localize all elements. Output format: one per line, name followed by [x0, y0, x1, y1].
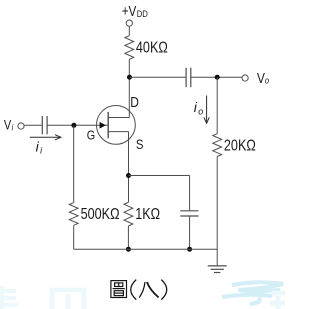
watermark pale glyph bottom-left 1: [0, 286, 18, 309]
wire C2 to Vo: [191, 76, 242, 78]
node gate junction: [71, 123, 76, 128]
node output junction: [215, 75, 220, 80]
wire R3 to bottom: [73, 225, 75, 249]
node C3 bottom junction: [187, 247, 192, 252]
caption parenthesis right: [161, 280, 166, 300]
wire source lead down: [128, 132, 130, 203]
transistor Q1 source bar: [108, 131, 128, 133]
current io arrow: [204, 96, 209, 124]
svg-text:D: D: [130, 94, 139, 110]
transistor Q1 channel bar: [107, 112, 109, 138]
svg-text:o: o: [198, 106, 203, 116]
label +VDD: [122, 3, 148, 19]
wire down to C3: [189, 176, 191, 211]
watermark pale glyph bottom-left 2: [50, 288, 86, 309]
wire R4 to bottom: [127, 226, 129, 249]
terminal Vi: [18, 123, 24, 129]
ground: [208, 266, 227, 273]
watermark pale glyph bottom-right edge: [270, 293, 285, 309]
label Vo: [257, 70, 269, 86]
svg-text:500KΩ: 500KΩ: [81, 205, 120, 222]
node source junction: [126, 173, 131, 178]
wire R1 to drain: [128, 59, 130, 117]
wire C1 to gate node: [47, 124, 107, 126]
wire node to R2: [216, 77, 218, 134]
transistor Q1 drain bar: [108, 117, 129, 119]
capacitor C3 bypass: [180, 211, 198, 216]
wire R2 to ground: [216, 157, 218, 266]
resistor R3 500K: [69, 203, 78, 226]
svg-text:G: G: [87, 127, 95, 142]
wire Vi to C1: [24, 124, 42, 126]
svg-text:S: S: [136, 136, 144, 152]
node R4 bottom junction: [126, 247, 131, 252]
current ii arrow: [30, 135, 61, 140]
watermark cyan squiggle bottom-right: [222, 282, 283, 304]
wire bottom rail: [74, 248, 218, 250]
label Vi: [4, 117, 14, 132]
terminal VDD: [126, 20, 132, 26]
wire gate node to R3: [73, 125, 75, 202]
wire VDD to R1: [128, 26, 130, 35]
svg-text:V: V: [4, 117, 12, 132]
svg-text:o: o: [265, 75, 269, 86]
svg-text:V: V: [257, 70, 265, 86]
transistor Q1 body: [97, 106, 136, 145]
svg-text:1KΩ: 1KΩ: [135, 205, 160, 222]
caption parenthesis left: [131, 280, 136, 300]
caption glyph 八: [139, 282, 158, 298]
label io: [194, 99, 204, 116]
label ii: [36, 138, 44, 155]
resistor R2 20K: [213, 134, 222, 157]
svg-text:40KΩ: 40KΩ: [136, 38, 168, 55]
capacitor C2 output: [186, 68, 191, 88]
node drain junction: [127, 75, 132, 80]
terminal Vo: [242, 75, 248, 81]
transistor Q1 gate arrow: [100, 122, 106, 129]
wire source node to C3: [129, 175, 190, 177]
svg-text:+V: +V: [122, 3, 137, 19]
wire node to C2: [130, 76, 187, 78]
caption glyph 圖: [111, 281, 127, 298]
svg-text:DD: DD: [137, 8, 148, 19]
wire C3 to bottom: [189, 216, 191, 249]
resistor R1 40K: [125, 36, 134, 60]
svg-text:20KΩ: 20KΩ: [224, 136, 256, 153]
resistor R4 1K: [124, 202, 133, 226]
capacitor C1 input: [42, 116, 47, 134]
